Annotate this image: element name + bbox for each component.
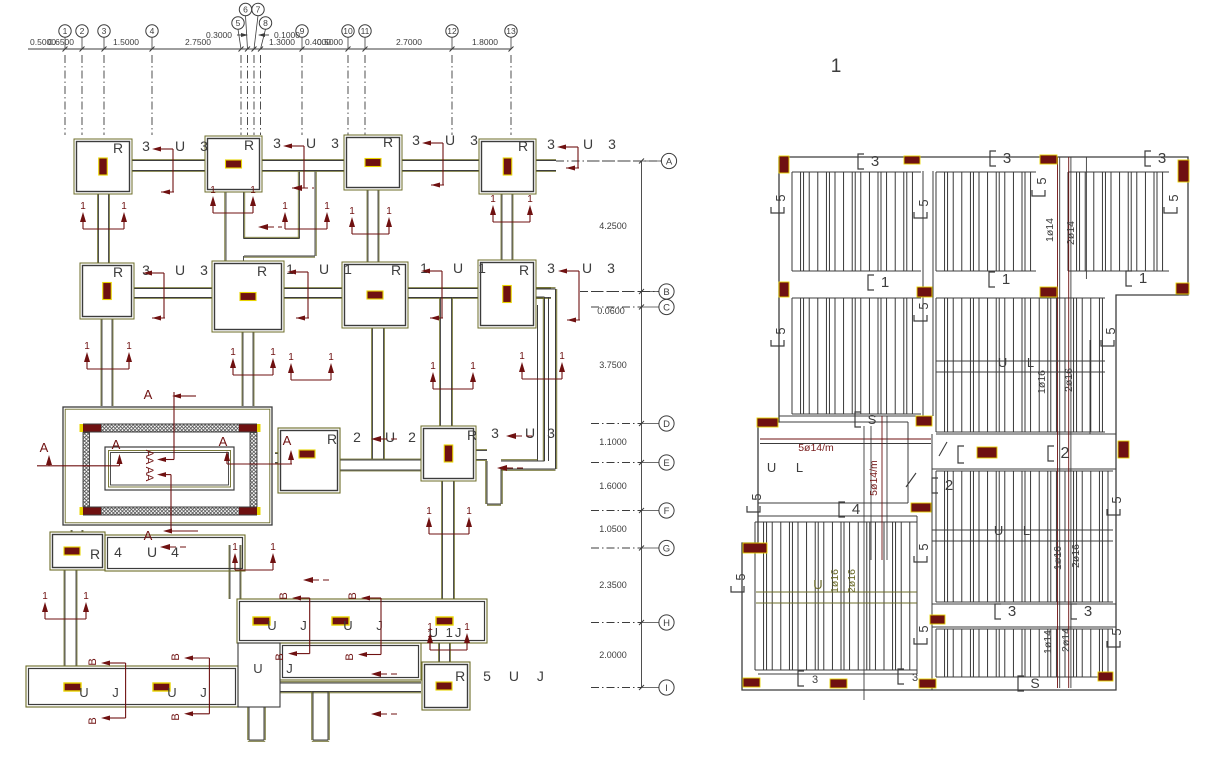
svg-text:A: A bbox=[40, 440, 49, 455]
svg-text:1: 1 bbox=[250, 185, 256, 196]
svg-text:R: R bbox=[257, 263, 267, 279]
svg-text:1: 1 bbox=[232, 542, 238, 553]
svg-text:5: 5 bbox=[916, 625, 931, 632]
svg-text:0.6500: 0.6500 bbox=[48, 37, 74, 47]
svg-text:3: 3 bbox=[273, 135, 281, 151]
svg-text:3: 3 bbox=[200, 138, 208, 154]
svg-text:U: U bbox=[453, 260, 463, 276]
svg-text:B: B bbox=[87, 658, 99, 665]
svg-text:1: 1 bbox=[464, 622, 470, 633]
svg-text:3: 3 bbox=[547, 260, 555, 276]
svg-text:5: 5 bbox=[1103, 327, 1118, 334]
svg-text:1: 1 bbox=[210, 185, 216, 196]
svg-text:5: 5 bbox=[1109, 496, 1124, 503]
svg-text:9: 9 bbox=[300, 26, 305, 36]
svg-text:1: 1 bbox=[559, 351, 565, 362]
svg-text:1: 1 bbox=[470, 361, 476, 372]
svg-text:U: U bbox=[175, 138, 185, 154]
svg-text:4: 4 bbox=[114, 544, 122, 560]
svg-text:U: U bbox=[147, 544, 157, 560]
svg-text:3: 3 bbox=[1084, 603, 1092, 620]
svg-text:10: 10 bbox=[343, 26, 353, 36]
svg-text:3: 3 bbox=[102, 26, 107, 36]
svg-text:1.8000: 1.8000 bbox=[472, 37, 498, 47]
svg-text:R: R bbox=[518, 138, 528, 154]
svg-text:3: 3 bbox=[547, 425, 555, 441]
svg-text:U: U bbox=[813, 577, 822, 592]
svg-text:G: G bbox=[663, 543, 670, 554]
svg-text:13: 13 bbox=[506, 26, 516, 36]
svg-text:5: 5 bbox=[1034, 177, 1049, 184]
svg-text:4: 4 bbox=[171, 544, 179, 560]
svg-text:S: S bbox=[868, 412, 877, 427]
svg-text:U: U bbox=[306, 135, 316, 151]
svg-text:1: 1 bbox=[478, 260, 486, 276]
svg-text:11: 11 bbox=[361, 26, 370, 36]
svg-text:3: 3 bbox=[412, 132, 420, 148]
svg-text:1ø16: 1ø16 bbox=[1036, 370, 1048, 394]
svg-text:A: A bbox=[666, 156, 673, 167]
svg-text:3: 3 bbox=[547, 136, 555, 152]
svg-text:1: 1 bbox=[831, 56, 842, 77]
svg-text:1.6000: 1.6000 bbox=[599, 481, 627, 491]
svg-text:2ø16: 2ø16 bbox=[1070, 544, 1082, 568]
svg-text:1: 1 bbox=[282, 201, 288, 212]
svg-text:1: 1 bbox=[121, 201, 127, 212]
svg-text:1: 1 bbox=[1139, 270, 1147, 287]
svg-text:1: 1 bbox=[270, 347, 276, 358]
svg-text:C: C bbox=[663, 302, 670, 313]
svg-text:D: D bbox=[663, 419, 670, 430]
svg-text:U: U bbox=[319, 261, 329, 277]
svg-text:B: B bbox=[170, 713, 182, 720]
svg-text:1: 1 bbox=[80, 201, 86, 212]
svg-text:U: U bbox=[385, 429, 395, 445]
svg-text:1.5000: 1.5000 bbox=[113, 37, 139, 47]
svg-text:U: U bbox=[525, 425, 535, 441]
svg-text:6: 6 bbox=[243, 5, 248, 15]
svg-text:R: R bbox=[467, 427, 477, 443]
svg-text:AA: AA bbox=[143, 467, 155, 482]
svg-text:R: R bbox=[383, 134, 393, 150]
svg-text:5ø14/m: 5ø14/m bbox=[868, 460, 880, 496]
svg-text:1: 1 bbox=[288, 352, 294, 363]
svg-text:5ø14/m: 5ø14/m bbox=[798, 442, 834, 454]
svg-text:U L: U L bbox=[767, 460, 811, 475]
svg-text:R: R bbox=[113, 140, 123, 156]
svg-text:5: 5 bbox=[236, 18, 241, 28]
svg-text:1: 1 bbox=[344, 261, 352, 277]
svg-text:1.0500: 1.0500 bbox=[599, 524, 627, 534]
svg-text:U: U bbox=[582, 260, 592, 276]
svg-text:B: B bbox=[347, 592, 359, 599]
svg-text:8: 8 bbox=[263, 18, 268, 28]
svg-text:1ø14: 1ø14 bbox=[1042, 630, 1054, 654]
svg-text:2: 2 bbox=[1061, 445, 1070, 462]
svg-text:3: 3 bbox=[1158, 150, 1166, 167]
svg-text:1ø14: 1ø14 bbox=[1044, 218, 1056, 242]
svg-text:3: 3 bbox=[1008, 603, 1016, 620]
svg-text:1: 1 bbox=[386, 206, 392, 217]
svg-text:1: 1 bbox=[427, 622, 433, 633]
svg-text:U: U bbox=[583, 136, 593, 152]
svg-text:2.7000: 2.7000 bbox=[396, 37, 422, 47]
svg-text:2ø16: 2ø16 bbox=[1063, 368, 1075, 392]
svg-text:5: 5 bbox=[1109, 628, 1124, 635]
svg-text:E: E bbox=[663, 458, 669, 469]
svg-text:B: B bbox=[274, 653, 286, 660]
svg-text:2: 2 bbox=[80, 26, 85, 36]
svg-text:S: S bbox=[1030, 675, 1039, 691]
svg-text:1.3000: 1.3000 bbox=[269, 37, 295, 47]
svg-text:3: 3 bbox=[912, 672, 918, 684]
svg-text:2ø16: 2ø16 bbox=[846, 569, 858, 593]
svg-text:AA: AA bbox=[143, 450, 155, 465]
svg-text:B: B bbox=[278, 592, 290, 599]
svg-text:1: 1 bbox=[270, 542, 276, 553]
svg-text:U 1J: U 1J bbox=[429, 625, 464, 640]
svg-text:0.5000: 0.5000 bbox=[317, 37, 343, 47]
svg-text:1.1000: 1.1000 bbox=[599, 437, 627, 447]
svg-text:1: 1 bbox=[519, 351, 525, 362]
svg-text:R: R bbox=[519, 262, 529, 278]
svg-text:3: 3 bbox=[470, 132, 478, 148]
svg-text:U L: U L bbox=[998, 355, 1042, 370]
svg-text:R: R bbox=[327, 431, 337, 447]
svg-text:4: 4 bbox=[150, 26, 155, 36]
svg-text:3: 3 bbox=[142, 138, 150, 154]
svg-text:3: 3 bbox=[607, 260, 615, 276]
svg-text:R 5 U J: R 5 U J bbox=[455, 668, 551, 684]
svg-text:1: 1 bbox=[490, 194, 496, 205]
svg-text:U J: U J bbox=[79, 685, 129, 700]
svg-text:3: 3 bbox=[608, 136, 616, 152]
svg-text:5: 5 bbox=[1166, 194, 1181, 201]
svg-text:2.0000: 2.0000 bbox=[599, 650, 627, 660]
svg-text:B: B bbox=[170, 653, 182, 660]
svg-text:1: 1 bbox=[881, 274, 889, 291]
svg-text:U J: U J bbox=[343, 618, 393, 633]
svg-text:3: 3 bbox=[1003, 150, 1011, 167]
svg-text:3: 3 bbox=[812, 674, 818, 686]
svg-text:B: B bbox=[87, 717, 99, 724]
svg-text:5: 5 bbox=[916, 543, 931, 550]
svg-text:1: 1 bbox=[63, 26, 68, 36]
svg-text:H: H bbox=[663, 618, 670, 629]
svg-text:1: 1 bbox=[1002, 271, 1010, 288]
svg-text:1: 1 bbox=[328, 352, 334, 363]
svg-text:12: 12 bbox=[447, 26, 457, 36]
svg-text:I: I bbox=[665, 683, 668, 694]
svg-text:5: 5 bbox=[749, 493, 764, 500]
svg-text:3: 3 bbox=[491, 425, 499, 441]
svg-text:F: F bbox=[664, 506, 670, 517]
svg-text:3.7500: 3.7500 bbox=[599, 360, 627, 370]
svg-text:1: 1 bbox=[349, 206, 355, 217]
svg-text:R: R bbox=[391, 262, 401, 278]
svg-text:3: 3 bbox=[142, 262, 150, 278]
svg-text:A: A bbox=[144, 387, 153, 402]
svg-text:4: 4 bbox=[852, 501, 860, 518]
svg-text:U: U bbox=[445, 132, 455, 148]
svg-text:5: 5 bbox=[916, 302, 931, 309]
svg-text:0.3000: 0.3000 bbox=[206, 30, 232, 40]
svg-text:U: U bbox=[175, 262, 185, 278]
svg-text:R: R bbox=[244, 137, 254, 153]
svg-text:1ø16: 1ø16 bbox=[1052, 546, 1064, 570]
svg-text:A: A bbox=[144, 528, 153, 543]
svg-text:1: 1 bbox=[286, 261, 294, 277]
svg-text:1: 1 bbox=[230, 347, 236, 358]
svg-text:5: 5 bbox=[773, 194, 788, 201]
svg-text:2: 2 bbox=[353, 429, 361, 445]
svg-text:1: 1 bbox=[84, 341, 90, 352]
svg-text:1: 1 bbox=[430, 361, 436, 372]
svg-text:1: 1 bbox=[126, 341, 132, 352]
svg-text:1: 1 bbox=[466, 506, 472, 517]
svg-text:1: 1 bbox=[426, 506, 432, 517]
svg-text:1: 1 bbox=[42, 591, 48, 602]
svg-text:1ø16: 1ø16 bbox=[829, 569, 841, 593]
svg-text:A: A bbox=[219, 434, 228, 449]
svg-text:7: 7 bbox=[256, 5, 261, 15]
svg-text:2ø14: 2ø14 bbox=[1065, 221, 1077, 245]
svg-text:2ø14: 2ø14 bbox=[1060, 628, 1072, 652]
svg-text:U L: U L bbox=[994, 523, 1038, 538]
svg-text:1: 1 bbox=[324, 201, 330, 212]
svg-text:R: R bbox=[90, 546, 100, 562]
svg-text:B: B bbox=[344, 653, 356, 660]
svg-text:U J: U J bbox=[253, 661, 303, 676]
svg-text:2: 2 bbox=[408, 429, 416, 445]
svg-text:1: 1 bbox=[527, 194, 533, 205]
svg-text:1: 1 bbox=[83, 591, 89, 602]
svg-text:B: B bbox=[663, 287, 669, 298]
svg-text:2: 2 bbox=[945, 477, 953, 494]
svg-text:4.2500: 4.2500 bbox=[599, 221, 627, 231]
svg-text:5: 5 bbox=[916, 199, 931, 206]
svg-text:2.3500: 2.3500 bbox=[599, 580, 627, 590]
svg-text:R: R bbox=[113, 264, 123, 280]
svg-text:3: 3 bbox=[871, 153, 879, 170]
svg-text:3: 3 bbox=[200, 262, 208, 278]
svg-text:0.0600: 0.0600 bbox=[597, 306, 625, 316]
svg-text:A: A bbox=[112, 437, 121, 452]
svg-text:3: 3 bbox=[331, 135, 339, 151]
svg-text:5: 5 bbox=[733, 573, 748, 580]
svg-text:5: 5 bbox=[773, 327, 788, 334]
svg-text:A: A bbox=[283, 433, 292, 448]
svg-text:1: 1 bbox=[420, 260, 428, 276]
